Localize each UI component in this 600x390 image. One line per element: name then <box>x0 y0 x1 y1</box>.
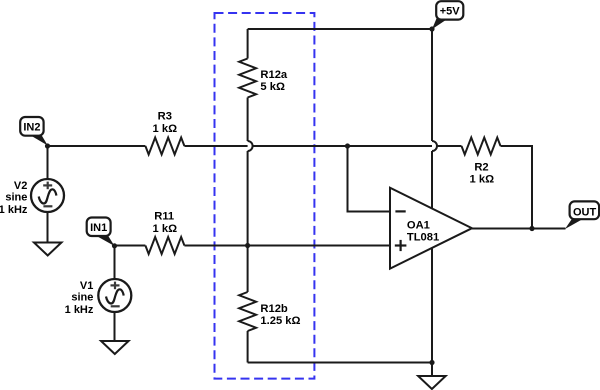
svg-text:V1: V1 <box>80 280 93 292</box>
svg-text:IN2: IN2 <box>23 122 40 134</box>
wire R2 to output column <box>501 146 533 229</box>
node feedback junction <box>345 143 350 148</box>
svg-text:1 kHz: 1 kHz <box>65 304 94 316</box>
svg-text:sine: sine <box>71 291 93 303</box>
resistor R12a <box>239 59 256 98</box>
V2 value label <box>0 180 28 216</box>
wire R3 to feedback junction <box>184 145 347 147</box>
svg-text:+5V: +5V <box>440 6 461 18</box>
ground V2 <box>34 243 62 256</box>
node +5V tap <box>429 26 434 31</box>
wire feedback junction down to inverting input <box>348 146 391 212</box>
wire bottom rail <box>248 362 432 364</box>
ground V1 <box>101 341 129 354</box>
wire IN1 node to V1 <box>114 246 116 280</box>
R3 value label <box>153 111 178 135</box>
node output junction <box>529 226 534 231</box>
R12b value label <box>260 303 300 327</box>
wire ground stem bottom rail <box>431 363 433 377</box>
svg-text:OA1: OA1 <box>407 219 430 231</box>
resistor R2 <box>462 138 501 155</box>
resistor R12b <box>239 292 256 331</box>
R11 value label <box>153 211 178 235</box>
wire IN2 node to R3 <box>48 145 146 147</box>
node bottom rail junction <box>429 360 434 365</box>
wire IN2 node to V2 <box>47 146 49 179</box>
svg-text:R3: R3 <box>158 111 172 123</box>
voltage source V2 <box>31 179 64 212</box>
power rail vertical +5V column <box>431 29 433 141</box>
wire hop over divider at R12 column <box>248 141 253 151</box>
svg-text:1.25 kΩ: 1.25 kΩ <box>260 315 300 327</box>
svg-text:V2: V2 <box>14 180 27 192</box>
svg-text:1 kΩ: 1 kΩ <box>153 123 178 135</box>
wire V2 to ground <box>47 212 49 243</box>
annotation dashed box <box>215 13 315 379</box>
wire R11 to noninverting input <box>184 245 390 247</box>
flag +5V <box>432 1 463 29</box>
wire feedback junction to R2 <box>348 145 462 147</box>
flag IN1 <box>87 218 115 247</box>
svg-text:1 kΩ: 1 kΩ <box>470 174 495 186</box>
wire hop over power column <box>432 141 437 151</box>
wire IN1 node to R11 <box>115 245 146 247</box>
ground bottom rail <box>418 376 446 389</box>
flag IN2 <box>20 117 48 146</box>
svg-text:sine: sine <box>5 191 27 203</box>
OA1 name and value label <box>407 219 439 243</box>
op-amp U1 (OA1) triangle with input polarity marks <box>390 188 472 269</box>
resistor R3 <box>145 138 184 155</box>
svg-text:R12a: R12a <box>260 69 288 81</box>
V1 value label <box>65 280 94 316</box>
svg-text:OUT: OUT <box>573 206 597 218</box>
flag OUT <box>565 201 599 229</box>
svg-text:1 kΩ: 1 kΩ <box>153 223 178 235</box>
voltage source V1 <box>98 279 131 312</box>
wire R12a bottom to divider node <box>247 98 249 142</box>
svg-text:R11: R11 <box>154 211 174 223</box>
wire V1 to ground <box>114 312 116 341</box>
wire R12a top lead <box>247 29 249 59</box>
svg-text:R2: R2 <box>474 161 488 173</box>
wire op-amp output <box>472 228 566 230</box>
wire divider node to R12b <box>247 246 249 293</box>
R2 value label <box>470 161 495 185</box>
resistor R11 <box>145 237 184 254</box>
wire top rail <box>248 28 432 30</box>
svg-text:1 kHz: 1 kHz <box>0 204 28 216</box>
R12a value label <box>260 69 288 93</box>
node IN2 <box>45 143 50 148</box>
svg-text:IN1: IN1 <box>90 222 107 234</box>
node divider junction <box>245 243 250 248</box>
svg-text:R12b: R12b <box>260 303 288 315</box>
node IN1 <box>112 243 117 248</box>
svg-text:5 kΩ: 5 kΩ <box>260 81 285 93</box>
svg-text:TL081: TL081 <box>407 232 439 244</box>
wire R12b bottom lead <box>247 331 249 363</box>
